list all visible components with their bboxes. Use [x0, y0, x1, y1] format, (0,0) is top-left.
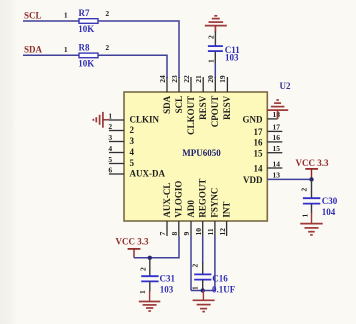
- svg-text:CLKIN: CLKIN: [130, 115, 160, 125]
- svg-text:1: 1: [108, 111, 112, 120]
- svg-text:FSYNC: FSYNC: [210, 188, 220, 218]
- svg-text:C30: C30: [322, 196, 338, 206]
- resistor R7: [79, 19, 98, 24]
- ground G4 below C31: [139, 291, 161, 311]
- svg-text:10K: 10K: [78, 58, 94, 68]
- svg-text:1: 1: [191, 286, 200, 290]
- svg-text:RESV: RESV: [222, 95, 232, 120]
- capacitor C11: [208, 46, 223, 51]
- svg-text:2: 2: [130, 125, 135, 135]
- svg-text:11: 11: [206, 228, 215, 235]
- svg-text:6: 6: [108, 165, 112, 174]
- svg-text:5: 5: [130, 158, 135, 168]
- svg-text:24: 24: [158, 75, 167, 83]
- wire SDA left: [23, 54, 79, 56]
- svg-text:1: 1: [64, 11, 68, 20]
- wire VDD pin 13: [267, 178, 311, 180]
- right pin stubs 18..13: [267, 119, 282, 168]
- top pin stubs 24..19: [167, 77, 227, 92]
- svg-text:R7: R7: [79, 8, 90, 18]
- svg-text:INT: INT: [221, 202, 231, 218]
- svg-text:MPU6050: MPU6050: [182, 148, 221, 158]
- wire C16 pin2: [202, 262, 204, 274]
- svg-text:10K: 10K: [78, 24, 94, 34]
- svg-text:23: 23: [170, 75, 179, 83]
- svg-text:10: 10: [194, 228, 203, 236]
- svg-text:VCC 3.3: VCC 3.3: [296, 158, 329, 168]
- svg-text:2: 2: [105, 9, 109, 18]
- svg-text:SDA: SDA: [24, 45, 43, 55]
- IC U2 body MPU6050: [124, 92, 267, 221]
- svg-text:2: 2: [139, 267, 148, 271]
- svg-text:AUX-CL: AUX-CL: [162, 183, 172, 218]
- svg-text:3: 3: [108, 133, 112, 142]
- wire SDA right to pin 24: [98, 55, 167, 78]
- svg-text:2: 2: [206, 35, 215, 39]
- wire C31 pin2: [149, 258, 151, 276]
- svg-text:21: 21: [194, 75, 203, 83]
- svg-text:2: 2: [105, 43, 109, 52]
- svg-text:17: 17: [254, 127, 264, 137]
- svg-text:VLOGIO: VLOGIO: [174, 181, 184, 218]
- svg-text:18: 18: [273, 110, 281, 119]
- VCC stem right: [311, 169, 313, 180]
- svg-text:VCC 3.3: VCC 3.3: [116, 236, 149, 246]
- wire C31 pin1 to ground: [149, 281, 151, 292]
- svg-text:1: 1: [301, 214, 310, 218]
- wire SCL left: [23, 20, 79, 22]
- wire pin 11 down: [214, 236, 216, 291]
- svg-text:8: 8: [170, 232, 179, 236]
- VCC bar bottom left: [128, 248, 141, 250]
- svg-text:7: 7: [158, 232, 167, 236]
- svg-text:2: 2: [300, 188, 309, 192]
- capacitor C31: [141, 276, 158, 281]
- svg-text:0.1UF: 0.1UF: [212, 284, 236, 294]
- wire C30 pin1 to ground: [311, 204, 313, 214]
- svg-text:R8: R8: [79, 42, 90, 52]
- VCC bar right: [305, 168, 318, 170]
- wire C11 pin1 to chip pin 20: [214, 51, 216, 63]
- svg-text:104: 104: [322, 207, 336, 217]
- svg-text:19: 19: [218, 75, 227, 83]
- svg-text:14: 14: [273, 159, 281, 168]
- svg-text:SDA: SDA: [162, 95, 172, 114]
- capacitor C30: [303, 198, 320, 203]
- ground G6 below C30: [300, 213, 323, 235]
- ground G5 below C16: [193, 291, 215, 312]
- wire CLKIN to ground: [103, 119, 109, 121]
- bottom pin stubs 7..12: [167, 221, 227, 236]
- svg-text:1: 1: [64, 45, 68, 54]
- svg-text:RESV: RESV: [198, 95, 208, 120]
- svg-text:CPOUT: CPOUT: [210, 96, 220, 128]
- svg-text:12: 12: [218, 228, 227, 236]
- capacitor C16: [194, 274, 211, 279]
- junction dot C16: [201, 288, 205, 292]
- svg-text:103: 103: [225, 52, 239, 62]
- resistor R8: [79, 53, 98, 58]
- svg-text:17: 17: [273, 123, 281, 132]
- wire ground to C11 pin2: [214, 32, 216, 47]
- svg-text:5: 5: [108, 155, 112, 164]
- svg-text:2: 2: [191, 264, 200, 268]
- svg-text:16: 16: [254, 138, 264, 148]
- junction dot VDD: [309, 177, 313, 181]
- svg-text:16: 16: [273, 133, 281, 142]
- VCC stem bottom left: [133, 249, 135, 258]
- ground G1 above C11: [205, 16, 227, 33]
- svg-text:1: 1: [138, 290, 147, 294]
- ground G2 above pin 18: [267, 100, 288, 119]
- svg-text:AD0: AD0: [186, 200, 196, 218]
- wire pin 10 down to C16: [202, 236, 204, 263]
- svg-text:2: 2: [108, 122, 112, 131]
- svg-text:1: 1: [206, 59, 215, 63]
- ground G3 at CLKIN: [93, 112, 103, 128]
- svg-text:14: 14: [254, 164, 264, 174]
- svg-text:U2: U2: [280, 81, 291, 91]
- wire C16 pin1: [202, 280, 204, 291]
- svg-text:C16: C16: [212, 274, 228, 284]
- wire VCC to pin 8: [134, 236, 179, 258]
- svg-text:3: 3: [130, 136, 135, 146]
- junction dot C31: [148, 256, 152, 260]
- wire C30 pin2: [311, 179, 313, 198]
- svg-text:C31: C31: [160, 274, 176, 284]
- svg-text:103: 103: [160, 285, 174, 295]
- svg-text:15: 15: [273, 144, 281, 153]
- wire pin 9 down: [190, 236, 192, 291]
- svg-text:VDD: VDD: [243, 175, 263, 185]
- svg-text:SCL: SCL: [24, 10, 42, 20]
- svg-text:4: 4: [130, 147, 135, 157]
- svg-text:4: 4: [108, 144, 112, 153]
- svg-text:13: 13: [273, 171, 281, 180]
- svg-text:CLKOUT: CLKOUT: [186, 96, 196, 135]
- left pin stubs 1..6: [109, 120, 124, 174]
- svg-text:AUX-DA: AUX-DA: [130, 169, 166, 179]
- wire SCL right to pin 23: [98, 21, 179, 78]
- svg-text:22: 22: [182, 75, 191, 83]
- svg-text:15: 15: [254, 148, 264, 158]
- svg-text:20: 20: [206, 75, 215, 83]
- svg-text:SCL: SCL: [174, 96, 184, 114]
- svg-text:9: 9: [182, 232, 191, 236]
- svg-text:REGOUT: REGOUT: [198, 179, 208, 218]
- wire junction row below C16: [191, 290, 215, 292]
- svg-text:GND: GND: [243, 115, 264, 125]
